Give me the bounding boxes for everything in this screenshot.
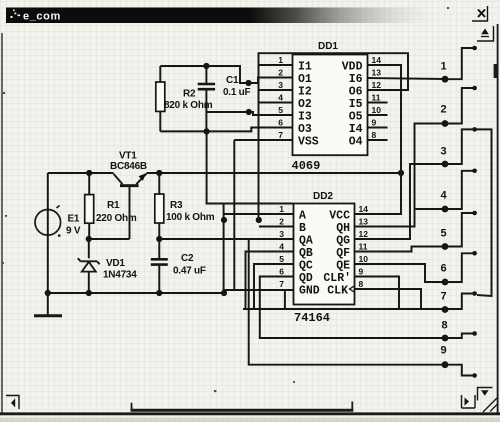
wire DD2 QD down to connector 8: [260, 277, 445, 339]
DD1 left pin numbers 1-7: [278, 55, 283, 140]
svg-text:2: 2: [279, 217, 284, 227]
svg-text:3: 3: [440, 146, 446, 158]
wire common line to connector 7: [243, 308, 445, 310]
connector 4 node: [442, 206, 449, 213]
node ground rail VD1: [86, 290, 92, 296]
svg-text:QF: QF: [336, 247, 350, 260]
svg-text:5: 5: [440, 228, 446, 240]
op-amp/IC U2 DD2 74164 body: [294, 204, 355, 305]
close button x: [472, 6, 488, 21]
wire A-net down to ground rail: [223, 204, 225, 294]
resistor R1: [85, 173, 94, 239]
svg-text:I6: I6: [349, 73, 363, 86]
wire connector 1 stub: [445, 48, 474, 79]
node connector 7 stub end: [472, 291, 477, 296]
wire connector 4 tap to QH riser: [415, 208, 446, 210]
svg-text:BC846B: BC846B: [110, 161, 147, 172]
svg-text:QD: QD: [299, 272, 313, 285]
svg-text:7: 7: [440, 291, 446, 303]
node R3 top junction: [156, 170, 162, 176]
svg-text:4: 4: [440, 190, 447, 202]
wire connector 2 stub: [445, 88, 474, 124]
resistor R3: [155, 173, 164, 239]
svg-text:12: 12: [359, 229, 369, 239]
svg-text:VCC: VCC: [329, 210, 350, 223]
svg-text:6: 6: [440, 263, 446, 275]
node connector 6 stub end: [472, 251, 477, 256]
wire GND riser to common line: [284, 290, 286, 309]
window left border: [1, 33, 3, 414]
wire DD2 QE to connector 6: [355, 264, 446, 282]
zener diode VD1: [78, 239, 100, 293]
svg-text:O6: O6: [349, 86, 363, 99]
svg-text:QE: QE: [336, 260, 350, 273]
wire connector 4 stub: [445, 171, 474, 209]
node connector 4 stub end: [472, 169, 477, 174]
wire DD1 pin 7 VSS: [234, 139, 292, 141]
svg-text:3: 3: [278, 80, 283, 90]
svg-text:14: 14: [359, 204, 369, 214]
wire DD2 QC with drop: [254, 264, 294, 309]
node R3/C2/QA junction: [156, 236, 162, 242]
capacitor C2: [151, 239, 168, 293]
svg-text:e_com: e_com: [23, 11, 61, 23]
node connector 9 stub end: [472, 373, 477, 378]
svg-text:R2: R2: [183, 89, 196, 100]
node C1 top junction: [203, 63, 209, 69]
svg-text:220 Ohm: 220 Ohm: [96, 213, 137, 224]
wire DD1 pin 11 stub: [368, 102, 388, 104]
node +V/VDD rail junction: [398, 170, 404, 176]
svg-text:2: 2: [278, 68, 283, 78]
svg-text:14: 14: [372, 55, 382, 65]
vscroll down arrow button + corner grip: [478, 388, 498, 413]
svg-text:QB: QB: [299, 247, 313, 260]
wire stub3 to right bus: [476, 129, 492, 296]
svg-text:VSS: VSS: [298, 136, 319, 149]
svg-text:4069: 4069: [292, 159, 321, 173]
connector 5 node: [442, 243, 449, 250]
wire base to R1 bottom: [89, 238, 130, 240]
DD2 left pin numbers 1-7: [279, 204, 284, 289]
node ground rail right end: [221, 290, 227, 296]
wire DD2 pin A: [224, 213, 294, 215]
connector 3 node: [442, 161, 449, 168]
wire DD1 VDD down to DD2 VCC: [355, 65, 402, 214]
wire connector 3 stub: [445, 129, 474, 164]
wire DD2 pin B: [259, 226, 294, 228]
wire DD1 pin 3: [259, 89, 293, 91]
wire ground to DD2 GND: [224, 290, 294, 293]
node base/R1/VD1 junction: [86, 236, 92, 242]
node connector 2 stub end: [472, 86, 477, 91]
wire connector 9 stub: [445, 365, 474, 376]
wire oscillator net down to A-row: [207, 131, 294, 203]
wire +V rail right segment (VT1 emitter to VDD line): [147, 172, 402, 174]
svg-text:7: 7: [278, 130, 283, 140]
svg-text:CLK: CLK: [327, 285, 348, 298]
svg-text:VD1: VD1: [106, 258, 125, 269]
svg-text:7: 7: [279, 279, 284, 289]
svg-text:1N4734: 1N4734: [103, 270, 137, 281]
transistor VT1: [114, 173, 147, 239]
wire DD1 I6 to connector 1: [368, 78, 446, 79]
wire DD1 pin 5 with jog to C1 tap: [249, 112, 293, 115]
wire DD1 VSS down to ground: [233, 140, 235, 290]
wire DD1 pin 8 stub: [368, 139, 388, 141]
wire connector 7 stub: [445, 294, 474, 310]
node connector 1 stub end: [472, 46, 477, 51]
svg-text:0.47 uF: 0.47 uF: [173, 266, 206, 277]
svg-text:C1: C1: [226, 75, 239, 86]
svg-text:5: 5: [278, 105, 283, 115]
svg-text:C2: C2: [181, 253, 194, 264]
vertical scrollbar thumb tick: [494, 64, 498, 78]
wire R2 top to C1 top to DD1 I2: [160, 66, 248, 83]
svg-text:B: B: [299, 222, 306, 235]
connector 1 node: [442, 76, 449, 83]
node DD1 I3 wire junction: [246, 109, 252, 115]
svg-text:VDD: VDD: [342, 61, 363, 74]
svg-text:VT1: VT1: [119, 151, 137, 162]
DD2 pin names left column: [299, 210, 320, 298]
battery E1: [35, 173, 61, 293]
svg-text:QG: QG: [336, 235, 350, 248]
svg-text:4: 4: [279, 242, 284, 252]
connector 6 node: [442, 279, 449, 286]
title bar fading tail: [250, 8, 435, 24]
DD1 pin names left column: [298, 61, 319, 149]
svg-text:100 k Ohm: 100 k Ohm: [166, 212, 215, 223]
node connector 8 stub end: [472, 331, 477, 336]
connector 2 node: [442, 120, 449, 127]
svg-text:A: A: [299, 210, 306, 223]
wire DD2 CLR' drop to common line: [355, 277, 400, 310]
svg-text:O1: O1: [298, 73, 312, 86]
window right border: [497, 24, 499, 413]
svg-text:6: 6: [279, 267, 284, 277]
svg-text:1: 1: [279, 204, 284, 214]
DD2 right pin numbers 14-8: [359, 204, 369, 289]
svg-text:9: 9: [372, 118, 377, 128]
node A-net junction: [221, 217, 227, 223]
svg-text:O2: O2: [298, 98, 312, 111]
wire DD2 QB with drop: [246, 252, 294, 310]
svg-text:R3: R3: [170, 200, 183, 211]
DD1 pin names right column: [342, 61, 363, 149]
DD2 CLK edge-trigger arrow: [350, 286, 355, 292]
connector 8 node: [442, 335, 449, 342]
wire DD2 CLK drop to common line: [355, 289, 422, 309]
svg-text:I1: I1: [298, 61, 312, 74]
DD1 right pin numbers 14-8: [372, 55, 382, 140]
node R2/C1 bottom junction: [204, 128, 210, 134]
svg-text:E1: E1: [68, 214, 80, 225]
svg-text:QC: QC: [299, 260, 313, 273]
node ground rail E1: [45, 290, 51, 296]
svg-text:5: 5: [279, 254, 284, 264]
node DD1 I2 wire junction: [245, 80, 251, 86]
connector 9 node: [442, 361, 449, 368]
svg-text:2: 2: [440, 104, 446, 116]
node connector 3 stub end: [472, 127, 477, 132]
svg-text:0.1 uF: 0.1 uF: [223, 87, 251, 98]
svg-text:9: 9: [359, 267, 364, 277]
node connector 5 stub end: [472, 211, 477, 216]
svg-text:O3: O3: [298, 123, 312, 136]
wire DD1 pin 10 stub: [368, 114, 388, 116]
title bar black band: [6, 8, 252, 24]
svg-text:10: 10: [372, 105, 382, 115]
wire DD2 VCC (drawn with VDD above) pin stub: [354, 213, 356, 215]
svg-text:6: 6: [278, 118, 283, 128]
svg-text:4: 4: [278, 93, 283, 103]
svg-text:11: 11: [359, 242, 368, 252]
wire DD1 pin 1: [259, 64, 293, 66]
node feedback/B junction: [256, 217, 262, 223]
svg-text:3: 3: [279, 229, 284, 239]
svg-text:13: 13: [359, 217, 369, 227]
connector 7 node: [442, 306, 449, 313]
wire C1 tap to DD1 I3: [206, 111, 248, 113]
wire connector 6 stub: [445, 253, 474, 282]
svg-text:CLR': CLR': [323, 272, 351, 285]
svg-text:O5: O5: [349, 111, 363, 124]
svg-text:R1: R1: [107, 200, 120, 211]
svg-text:8: 8: [359, 279, 364, 289]
wire DD2 QH to connector 2 and connector 4 tap: [355, 124, 446, 227]
resistor R2: [156, 66, 165, 131]
svg-text:1: 1: [440, 61, 446, 73]
scrollbar up arrow button: [477, 26, 494, 41]
wire DD2 QA row (R3/C2 to pin 3): [159, 238, 293, 240]
wire connector 8 stub: [445, 334, 474, 339]
svg-text:I2: I2: [298, 86, 312, 99]
svg-text:O4: O4: [349, 136, 363, 149]
hscroll right arrow button: [462, 395, 476, 408]
svg-text:DD2: DD2: [313, 191, 333, 202]
svg-text:DD1: DD1: [318, 41, 338, 52]
svg-text:QH: QH: [336, 222, 350, 235]
wire DD2 QA down to connector 9: [249, 239, 445, 365]
wire DD2 QG to connector 3: [355, 164, 446, 239]
svg-text:1: 1: [278, 55, 283, 65]
svg-text:12: 12: [372, 80, 382, 90]
wire DD1 pin 4: [259, 102, 293, 104]
node R1 top junction: [86, 170, 92, 176]
svg-text:820 k Ohm: 820 k Ohm: [164, 100, 213, 111]
hscroll thumb: [131, 402, 354, 411]
svg-text:8: 8: [441, 320, 447, 332]
wire DD2 QF to connector 5: [355, 247, 446, 252]
wire DD1 pin 2 with jog to C1 net: [249, 78, 293, 84]
svg-text:13: 13: [372, 68, 382, 78]
wire connector 5 stub: [445, 213, 474, 247]
node ground rail C2: [156, 290, 162, 296]
svg-text:9 V: 9 V: [66, 226, 81, 237]
bottom window border: [0, 412, 500, 415]
svg-text:11: 11: [372, 93, 381, 103]
svg-text:GND: GND: [299, 285, 320, 298]
wire +V rail left segment (E1/R1 to VT1 collector): [48, 172, 114, 174]
hscroll left arrow button: [6, 396, 19, 410]
svg-text:QA: QA: [299, 235, 313, 248]
svg-text:I4: I4: [349, 123, 363, 136]
wire DD1 pin 9 stub: [368, 127, 388, 129]
capacitor C1: [198, 66, 215, 131]
svg-text:I3: I3: [298, 111, 312, 124]
wire R2/C1 bottom to DD1 O3: [160, 128, 292, 132]
svg-text:8: 8: [372, 130, 377, 140]
DD2 pin names right column: [323, 210, 351, 298]
title bar icon marks: [11, 10, 21, 19]
wire DD1 O6 feedback loop over the top: [259, 53, 409, 220]
wire ground rail: [48, 292, 224, 294]
svg-text:74164: 74164: [294, 311, 330, 325]
op-amp/IC U1 DD1 4069 body: [293, 55, 368, 156]
svg-text:9: 9: [440, 345, 446, 357]
svg-text:I5: I5: [349, 98, 363, 111]
svg-text:10: 10: [359, 254, 369, 264]
ground symbol: [34, 293, 62, 316]
